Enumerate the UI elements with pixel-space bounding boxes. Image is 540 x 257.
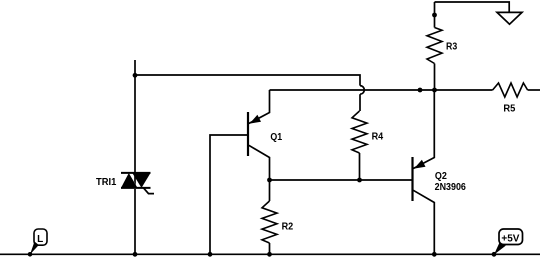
- wire R3 bottom lead: [434, 64, 436, 91]
- svg-text:R5: R5: [503, 104, 515, 115]
- port +5V flag: [492, 229, 523, 257]
- svg-text:+5V: +5V: [501, 233, 519, 244]
- node Q1 collector / R2 top: [267, 178, 272, 183]
- wire base rail y180: [270, 179, 413, 181]
- node R4 bottom: [357, 178, 362, 183]
- resistor R4: [352, 111, 367, 153]
- svg-text:TRI1: TRI1: [96, 177, 117, 188]
- wire R2 bottom lead: [269, 243, 271, 254]
- wire R5 right lead: [528, 89, 540, 91]
- port L flag: [28, 229, 47, 257]
- bottom rail: [0, 253, 540, 255]
- wire R2 top lead: [269, 180, 271, 201]
- node Q1 base bottom: [208, 252, 213, 257]
- svg-text:2N3906: 2N3906: [435, 182, 467, 193]
- resistor R5: [493, 83, 528, 97]
- wire stub above left node: [134, 60, 136, 75]
- svg-text:L: L: [37, 234, 43, 245]
- triac TRI1: [96, 75, 154, 254]
- node R3 top: [432, 13, 437, 18]
- node at 434.5: [432, 88, 437, 93]
- wire emitter rail y90: [270, 89, 493, 91]
- wire top rail to ground: [435, 2, 510, 12]
- resistor R3: [427, 28, 442, 64]
- svg-text:R3: R3: [446, 42, 458, 53]
- node A: [133, 73, 138, 78]
- wire top horizontal to R4: [135, 75, 360, 86]
- svg-text:R4: R4: [372, 132, 384, 143]
- wire Q1 base: [210, 135, 248, 254]
- node R2 bottom: [267, 252, 272, 257]
- node triac bottom: [133, 252, 138, 257]
- svg-text:Q1: Q1: [270, 132, 282, 143]
- wire hop over emitter wire: [360, 86, 364, 95]
- node at 420: [418, 88, 423, 93]
- transistor Q1: [248, 90, 283, 180]
- wire R3 top lead: [434, 2, 436, 28]
- transistor Q2: [413, 90, 467, 254]
- svg-text:R2: R2: [282, 221, 294, 232]
- wire R4 bottom lead: [359, 153, 361, 180]
- node Q2 collector bottom: [432, 252, 437, 257]
- ground: [497, 12, 522, 24]
- resistor R2: [262, 201, 277, 243]
- svg-text:Q2: Q2: [435, 171, 447, 182]
- wire hop to R4 top: [359, 94, 361, 111]
